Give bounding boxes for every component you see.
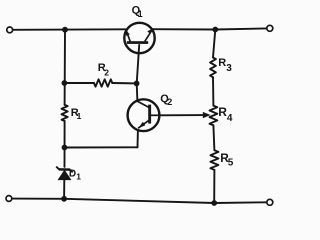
wire R4 to R5 <box>213 125 214 150</box>
terminal bottom-left <box>6 196 12 202</box>
svg-text:1: 1 <box>138 9 143 19</box>
terminal bottom-right <box>267 199 273 205</box>
R4 wiper arrowhead <box>203 112 211 118</box>
svg-text:5: 5 <box>228 157 234 168</box>
wire bottom rail <box>12 199 267 203</box>
svg-text:4: 4 <box>227 113 233 124</box>
wire left vertical lower <box>64 121 66 167</box>
resistor R3 <box>210 58 216 78</box>
wire node to Q2 collector <box>136 83 139 101</box>
transistor Q2 <box>128 99 160 131</box>
svg-text:D: D <box>69 169 76 180</box>
wire Q1 base to node <box>137 45 140 83</box>
junction top-right <box>212 27 218 33</box>
wire R5 to bottom rail <box>213 170 215 203</box>
zener diode D1 <box>56 167 72 180</box>
svg-text:1: 1 <box>77 111 82 121</box>
transistor Q1 <box>124 23 154 53</box>
wire right vertical top <box>213 30 215 58</box>
svg-text:2: 2 <box>104 68 109 78</box>
resistor R1 <box>62 105 68 121</box>
resistor R2 <box>94 79 112 86</box>
wire R2 left <box>64 82 94 84</box>
junction top-left <box>62 27 68 33</box>
wire Q2 emitter down <box>137 131 139 148</box>
wire Q2 base to R4 wiper <box>160 114 204 116</box>
wire R3 to R4 <box>212 77 214 105</box>
terminal top-right <box>267 25 273 31</box>
svg-text:1: 1 <box>76 171 81 181</box>
resistor R5 <box>210 150 218 170</box>
junction R2 right / Q1 base node <box>134 81 140 87</box>
junction R2 left <box>62 80 68 86</box>
wire emitter rail <box>65 146 138 148</box>
terminal top-left <box>7 27 13 33</box>
wire top rail left <box>12 28 126 31</box>
svg-text:2: 2 <box>167 97 172 107</box>
svg-text:3: 3 <box>226 63 232 74</box>
wire top rail right <box>152 28 266 29</box>
svg-text:R: R <box>218 57 226 69</box>
junction R5 bottom <box>211 200 217 206</box>
junction R1 bottom / emitter rail / D1 <box>62 145 68 151</box>
wire D1 to bottom rail <box>63 180 65 199</box>
resistor R4 potentiometer <box>210 106 218 126</box>
wire R2 right <box>112 82 136 84</box>
wire left vertical upper <box>64 30 66 105</box>
junction D1 bottom <box>61 196 67 202</box>
